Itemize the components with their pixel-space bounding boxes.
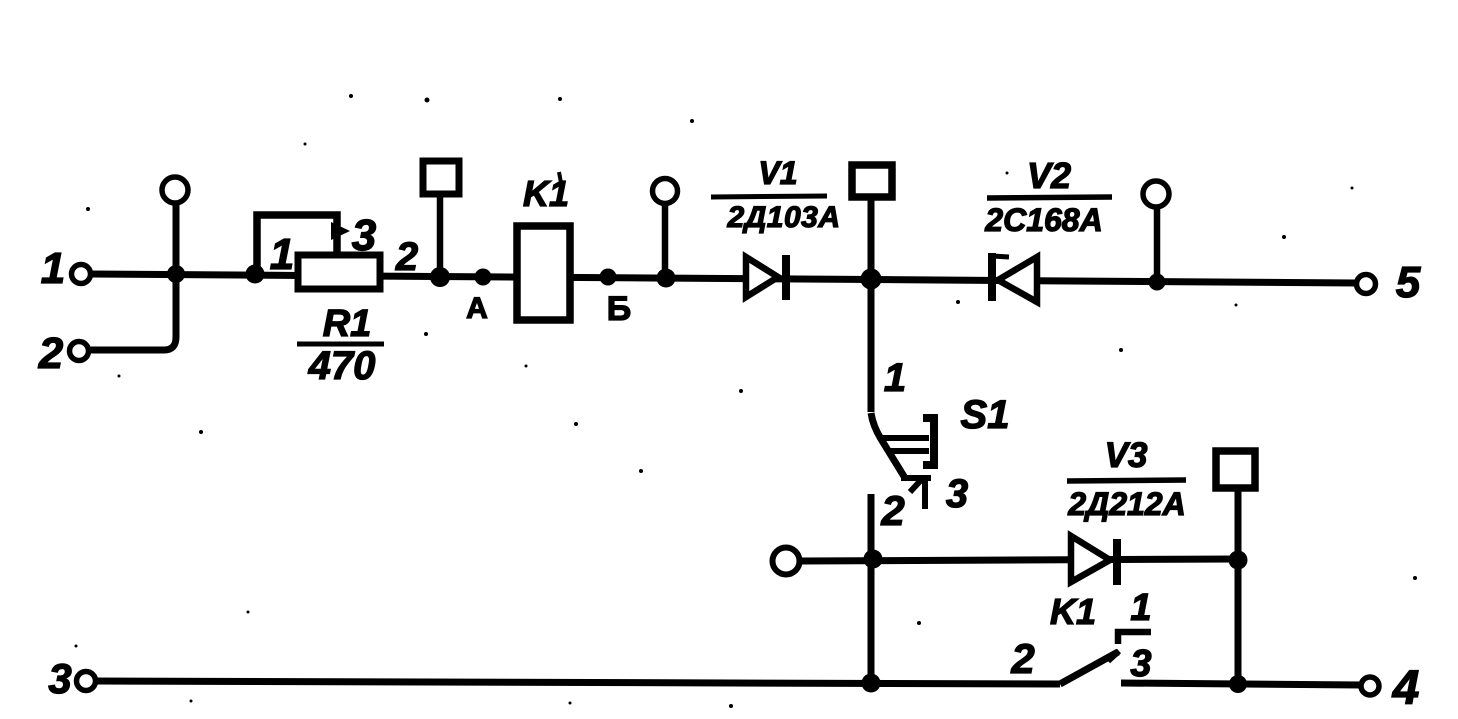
svg-text:V2: V2 xyxy=(1027,155,1071,196)
junction lamp C riser on middle bus xyxy=(1229,551,1248,570)
middle bus left terminal circle xyxy=(773,548,800,575)
measuring circle above node B xyxy=(653,179,678,204)
diode V1 cathode bar xyxy=(782,255,790,300)
diode V3 cathode bar xyxy=(1113,539,1121,585)
svg-text:5: 5 xyxy=(1396,258,1421,307)
square lamp A xyxy=(423,161,459,194)
diode V3 triangle xyxy=(1071,536,1110,582)
resistor R1 body xyxy=(298,255,380,289)
switch S1 arm end bar xyxy=(901,475,931,481)
svg-text:2: 2 xyxy=(880,487,904,534)
svg-text:3: 3 xyxy=(48,655,71,702)
svg-text:1: 1 xyxy=(884,356,906,400)
svg-text:2: 2 xyxy=(395,235,418,279)
zener V2 cathode bar xyxy=(988,253,996,301)
wire terminal-2 branch and riser to top-left circle xyxy=(89,204,176,350)
wire stub from circle above node B down to bus xyxy=(662,205,669,279)
scan noise specks xyxy=(75,94,1418,708)
terminal 1 circle xyxy=(72,265,91,284)
wire stub from square lamp A down to bus xyxy=(437,196,444,278)
junction S1 pin 2 riser on middle bus xyxy=(864,550,883,569)
relay contact K1 fixed contact pin 1 xyxy=(1118,632,1151,644)
square lamp C xyxy=(1216,451,1255,488)
svg-text:3: 3 xyxy=(1130,643,1151,685)
svg-text:R1: R1 xyxy=(323,303,372,345)
wire square lamp C riser down through middle bus to bottom bus xyxy=(1235,491,1242,684)
svg-text:2: 2 xyxy=(38,329,64,378)
relay coil K1 xyxy=(517,226,570,320)
junction under square lamp A xyxy=(430,267,450,287)
terminal 4 circle xyxy=(1361,677,1379,695)
top-left measuring circle xyxy=(162,177,188,203)
svg-text:1: 1 xyxy=(1130,587,1151,629)
node A dot xyxy=(475,269,492,286)
svg-text:Б: Б xyxy=(607,290,631,328)
terminal 2 circle xyxy=(70,342,89,361)
terminal 3 circle xyxy=(77,672,96,691)
svg-text:V3: V3 xyxy=(1105,436,1148,475)
wire stub circle above terminal 5 down to bus xyxy=(1154,207,1161,283)
wire bypass loop pin1 to pin3 of R1 xyxy=(257,215,337,273)
wire bottom bus left xyxy=(95,681,1060,684)
svg-text:V1: V1 xyxy=(758,155,797,191)
tick above K1 label xyxy=(559,172,561,183)
junction under circle near node B xyxy=(657,269,676,288)
switch S1 moving arm xyxy=(871,413,905,478)
svg-text:2: 2 xyxy=(1010,635,1034,682)
square lamp B xyxy=(852,165,892,197)
fraction line V2 xyxy=(987,197,1112,198)
wire main top bus xyxy=(91,274,1356,283)
measuring circle above terminal 5 wire xyxy=(1143,181,1169,207)
svg-text:2Д103А: 2Д103А xyxy=(726,201,840,234)
relay contact K1 barb xyxy=(1108,651,1119,661)
wire S1 pin 2 riser down through middle bus to bottom bus xyxy=(868,494,875,684)
switch S1 pushbutton plate line 1 xyxy=(883,435,929,441)
diode V1 triangle xyxy=(746,257,778,297)
svg-text:1: 1 xyxy=(270,230,294,279)
arrowhead on R1 loop xyxy=(331,222,350,240)
svg-text:1: 1 xyxy=(41,244,65,293)
terminal 5 circle xyxy=(1357,275,1376,294)
relay contact K1 moving arm xyxy=(1060,652,1118,684)
fraction line V3 xyxy=(1067,480,1186,481)
junction under square lamp B xyxy=(861,269,882,290)
svg-text:S1: S1 xyxy=(961,393,1010,437)
fraction line R1 xyxy=(297,342,384,347)
zener V2 hook xyxy=(992,256,1009,257)
junction at terminal-2 branch on top bus xyxy=(167,265,185,283)
svg-text:3: 3 xyxy=(352,211,376,260)
svg-text:K1: K1 xyxy=(1050,591,1096,632)
switch S1 pushbutton plate line 2 xyxy=(890,448,929,454)
switch S1 pin 3 stub xyxy=(922,478,928,509)
svg-text:470: 470 xyxy=(308,344,376,388)
junction S1 riser on bottom bus xyxy=(862,674,881,693)
wire stub square lamp B down through bus to S1 pin 1 xyxy=(868,199,875,412)
svg-text:2С168А: 2С168А xyxy=(984,202,1102,238)
svg-text:4: 4 xyxy=(1392,662,1420,715)
svg-text:A: A xyxy=(466,292,488,325)
wire bottom bus right xyxy=(1121,683,1361,685)
svg-text:3: 3 xyxy=(946,472,968,516)
junction at R1 loop tap xyxy=(246,265,265,284)
switch S1 barb xyxy=(910,479,922,492)
node B dot xyxy=(600,269,617,286)
junction under circle near terminal 5 xyxy=(1149,274,1166,291)
junction lamp C riser on bottom bus xyxy=(1229,675,1247,693)
switch S1 bracket contact xyxy=(923,418,934,465)
svg-text:2Д212А: 2Д212А xyxy=(1067,486,1185,522)
wire middle bus xyxy=(801,559,1238,561)
zener V2 triangle xyxy=(998,257,1037,302)
fraction line V1 xyxy=(711,196,827,197)
